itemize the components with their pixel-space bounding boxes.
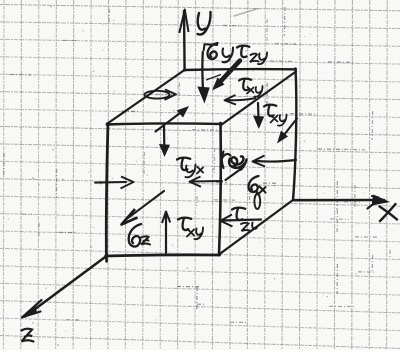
arrow tau-zy thick xyxy=(220,61,241,83)
node corner blobs xyxy=(106,122,110,126)
arrow tau-xy left (top face) xyxy=(227,98,255,100)
arrow sigma-x small loop up xyxy=(254,194,260,209)
label sigma-x xyxy=(249,176,259,192)
arrow diag down-left right face xyxy=(282,119,298,139)
arrow right at left face xyxy=(95,181,126,184)
wire front-top edge xyxy=(107,123,221,124)
label tau-yx scribble right face xyxy=(222,152,231,169)
arrow down front face xyxy=(163,126,166,145)
arrow tau-xy down (right face) xyxy=(257,103,260,119)
wire top-back edge xyxy=(184,68,295,71)
wire stray mark xyxy=(234,9,258,17)
node z label xyxy=(22,329,34,342)
label sigma-z xyxy=(129,224,141,247)
y-axis xyxy=(183,11,186,70)
wire front-bottom edge xyxy=(106,255,219,256)
arrow sigma-y down xyxy=(201,52,204,90)
arrow tau-xy up (front bottom) xyxy=(165,215,167,255)
wire bottom-right slant edge xyxy=(219,200,293,255)
arrow sigma-z diag xyxy=(126,191,164,220)
z-axis xyxy=(25,256,107,317)
wire top-left slant edge xyxy=(108,70,185,124)
label tau-yx front face xyxy=(177,158,190,170)
label sigma-y xyxy=(204,44,218,51)
label tau-zy top xyxy=(237,46,249,57)
node x label xyxy=(380,204,398,221)
wire front-left edge xyxy=(106,124,108,259)
label tau-xy bottom xyxy=(178,218,191,230)
wire front-right edge xyxy=(219,123,221,255)
arrow tau-yx left (front face) xyxy=(193,180,222,183)
label tau-xy top-right xyxy=(239,79,251,90)
wire back-right edge xyxy=(293,69,296,201)
arrow up-right on top face xyxy=(156,109,187,132)
node y label xyxy=(198,12,211,35)
arrow tau-zy left (bottom right) xyxy=(224,220,261,221)
arrow tau-yx left (right face) xyxy=(256,160,296,162)
x-axis xyxy=(294,199,385,202)
label tau-zy bottom right xyxy=(232,208,245,220)
arrow loop right on top face xyxy=(145,91,170,99)
label tau-xy right face xyxy=(264,105,276,116)
wire top-right slant edge xyxy=(221,72,296,126)
